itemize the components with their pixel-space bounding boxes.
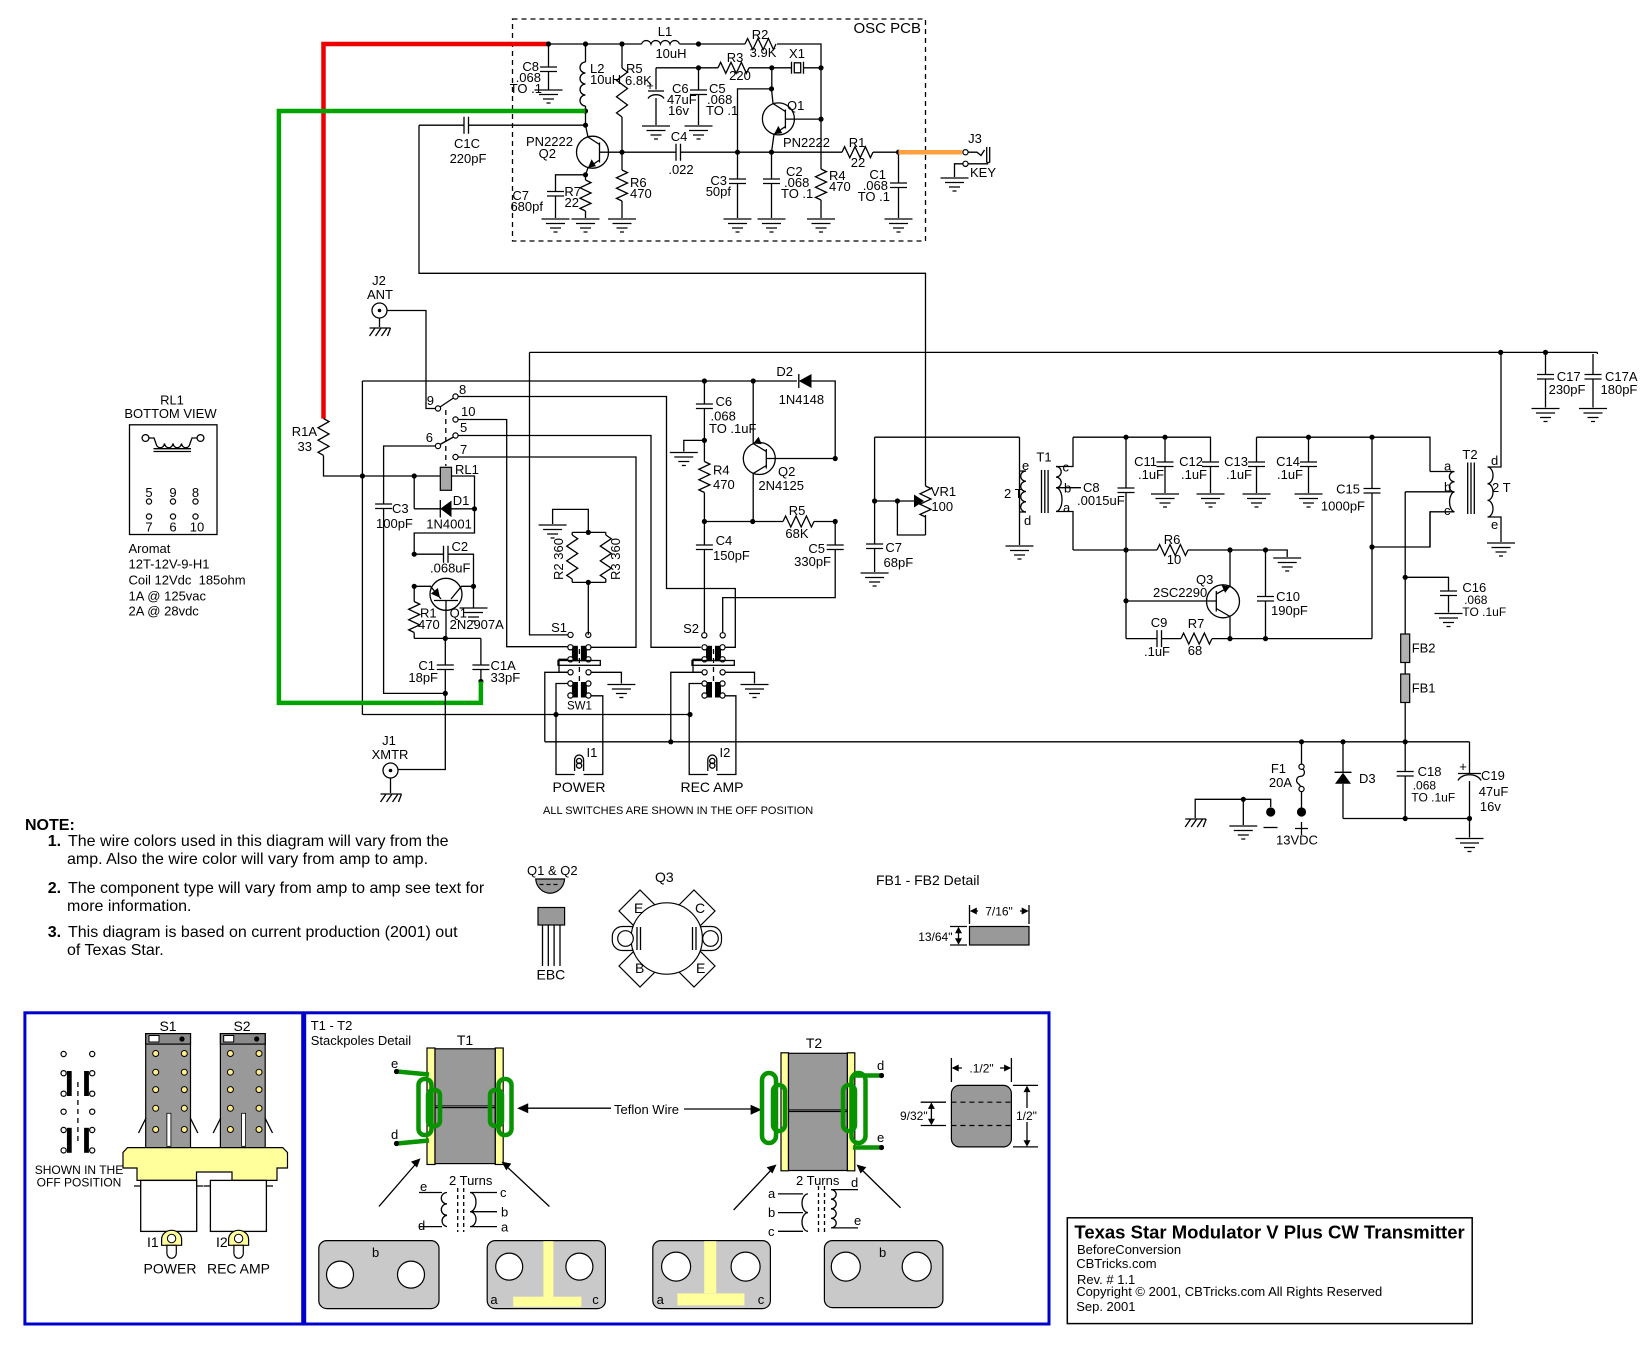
capacitor C17 230pF xyxy=(1545,352,1547,374)
svg-text:.1/2": .1/2" xyxy=(969,1062,993,1076)
wire rail1 xyxy=(362,714,690,716)
capacitor C19 47uF 16v xyxy=(1469,742,1471,773)
svg-text:190pF: 190pF xyxy=(1271,603,1308,618)
svg-text:R1A: R1A xyxy=(292,424,318,439)
svg-text:BOTTOM VIEW: BOTTOM VIEW xyxy=(124,406,217,421)
potentiometer VR1 100 xyxy=(875,437,1020,535)
svg-text:POWER: POWER xyxy=(553,779,606,795)
svg-text:R1: R1 xyxy=(849,135,866,150)
svg-text:150pF: 150pF xyxy=(713,548,750,563)
resistor R5 68K xyxy=(783,516,814,527)
capacitor C17A 180pF xyxy=(1593,352,1597,374)
resistor R1 22 osc xyxy=(842,147,873,158)
svg-text:T1 - T2: T1 - T2 xyxy=(311,1018,353,1033)
svg-text:J3: J3 xyxy=(968,131,982,146)
T1 card arrows xyxy=(379,1163,550,1207)
stackpole card 1 xyxy=(319,1241,439,1309)
wire red top feed xyxy=(324,44,549,419)
capacitor C8 xyxy=(548,44,550,67)
svg-text:8: 8 xyxy=(459,382,466,397)
svg-text:100: 100 xyxy=(931,499,953,514)
capacitor C2 .068 xyxy=(771,152,773,179)
relay blades xyxy=(440,398,454,445)
svg-text:a: a xyxy=(768,1186,776,1201)
svg-text:C3: C3 xyxy=(392,501,409,516)
svg-text:E: E xyxy=(696,960,705,976)
svg-text:I2: I2 xyxy=(720,745,731,760)
green lead e xyxy=(397,1072,429,1075)
svg-text:a: a xyxy=(501,1220,509,1235)
svg-text:J2: J2 xyxy=(372,273,386,288)
svg-text:2 Turns: 2 Turns xyxy=(796,1173,840,1188)
svg-text:1/2": 1/2" xyxy=(1016,1109,1037,1123)
wire Q1 collector to R3 node xyxy=(738,68,772,152)
svg-text:D3: D3 xyxy=(1359,771,1376,786)
green winding T1 right xyxy=(499,1079,512,1135)
resistor R4 470 osc xyxy=(820,119,822,218)
OSC PCB dashed border xyxy=(513,19,926,241)
wire R1 bottom row xyxy=(414,637,481,639)
svg-text:a: a xyxy=(1444,459,1452,474)
svg-text:C6: C6 xyxy=(716,394,733,409)
svg-text:68pF: 68pF xyxy=(884,555,914,570)
wire minus to grounds xyxy=(1195,799,1271,818)
svg-text:e: e xyxy=(877,1130,884,1145)
svg-text:c: c xyxy=(768,1224,775,1239)
svg-text:FB1 - FB2 Detail: FB1 - FB2 Detail xyxy=(876,872,979,888)
svg-text:c: c xyxy=(1063,460,1070,475)
wire S2 mid left to rail2 xyxy=(671,672,702,742)
svg-text:5: 5 xyxy=(460,420,467,435)
switch S1 pole 1 xyxy=(568,645,591,662)
svg-text:2A @ 28vdc: 2A @ 28vdc xyxy=(129,604,200,619)
svg-text:.1uF: .1uF xyxy=(1144,644,1170,659)
capacitor C1 .068 osc xyxy=(898,152,900,183)
svg-text:33pF: 33pF xyxy=(491,670,521,685)
transistor Q2 2N4125 xyxy=(743,443,775,475)
svg-text:e: e xyxy=(1022,458,1029,473)
svg-text:R6: R6 xyxy=(1164,532,1181,547)
svg-text:F1: F1 xyxy=(1271,761,1286,776)
svg-text:J1: J1 xyxy=(382,733,396,748)
fuse F1 20A xyxy=(1301,742,1303,765)
svg-text:Sep. 2001: Sep. 2001 xyxy=(1076,1299,1135,1314)
svg-text:2N2907A: 2N2907A xyxy=(450,617,505,632)
svg-text:T1: T1 xyxy=(1036,450,1051,465)
svg-text:8: 8 xyxy=(192,485,199,500)
svg-text:C15: C15 xyxy=(1336,482,1360,497)
svg-text:b: b xyxy=(501,1205,508,1220)
capacitor C3 50pf xyxy=(737,152,739,179)
svg-text:Q2: Q2 xyxy=(539,146,556,161)
green winding T2 right xyxy=(852,1073,866,1143)
svg-text:d: d xyxy=(1024,513,1031,528)
svg-text:This diagram is based on curre: This diagram is based on current product… xyxy=(68,924,458,941)
wire contact 7 path xyxy=(458,457,636,647)
T2 card arrows xyxy=(734,1168,901,1210)
ground C6 stub xyxy=(684,440,705,451)
wire top distribution line xyxy=(530,352,1598,635)
resistor R7 68 xyxy=(1162,638,1182,640)
svg-text:C7: C7 xyxy=(885,540,902,555)
stackpole card 2 xyxy=(487,1241,605,1309)
svg-text:68K: 68K xyxy=(785,526,808,541)
wire C8 bottom to base xyxy=(1125,550,1127,639)
svg-text:TO .1uF: TO .1uF xyxy=(709,421,757,436)
svg-text:a: a xyxy=(657,1292,665,1307)
capacitor C3 100pF xyxy=(375,504,392,509)
svg-text:REC AMP: REC AMP xyxy=(680,779,743,795)
svg-text:+: + xyxy=(646,78,654,93)
svg-text:c: c xyxy=(500,1185,507,1200)
svg-text:C9: C9 xyxy=(1151,615,1168,630)
svg-text:.022: .022 xyxy=(668,162,693,177)
svg-text:T2: T2 xyxy=(806,1035,823,1051)
wire feedback left xyxy=(419,125,926,486)
svg-text:R2: R2 xyxy=(752,27,769,42)
diode D3 xyxy=(1335,742,1352,773)
svg-text:c: c xyxy=(592,1292,599,1307)
svg-text:d: d xyxy=(1491,453,1498,468)
svg-text:e: e xyxy=(420,1179,427,1194)
resistor R3 360 xyxy=(605,532,607,582)
wire FB1 to rail2 xyxy=(1404,703,1406,742)
svg-text:.1uF: .1uF xyxy=(1277,467,1303,482)
ferrite bead FB1 xyxy=(1404,663,1406,675)
svg-text:D2: D2 xyxy=(776,364,793,379)
svg-text:9/32": 9/32" xyxy=(900,1109,928,1123)
capacitor C15 1000pF xyxy=(1371,437,1373,488)
wire contact 8 path xyxy=(458,397,735,648)
svg-text:330pF: 330pF xyxy=(794,554,831,569)
svg-text:C1C: C1C xyxy=(454,136,480,151)
green lead T2 d xyxy=(853,1073,880,1078)
capacitor C4 .022 xyxy=(622,151,676,153)
resistor R1A 33 xyxy=(324,456,441,477)
svg-text:50pf: 50pf xyxy=(706,184,732,199)
svg-text:c: c xyxy=(758,1292,765,1307)
svg-text:7: 7 xyxy=(460,442,467,457)
svg-text:KEY: KEY xyxy=(970,165,996,180)
svg-text:Aromat: Aromat xyxy=(129,541,171,556)
dashed S1 link xyxy=(578,649,580,682)
svg-text:T2: T2 xyxy=(1462,447,1477,462)
capacitor C6 47uF xyxy=(655,68,657,125)
svg-text:S2: S2 xyxy=(233,1018,250,1034)
svg-text:C19: C19 xyxy=(1481,768,1505,783)
crystal X1 xyxy=(792,62,804,74)
switch schematic symbol left xyxy=(61,1051,66,1056)
wire C1 bottom to J1 xyxy=(443,691,448,696)
svg-text:OFF POSITION: OFF POSITION xyxy=(37,1176,122,1190)
svg-text:Stackpoles Detail: Stackpoles Detail xyxy=(311,1033,412,1048)
wire S2 mid right to ground xyxy=(725,672,754,683)
svg-text:C10: C10 xyxy=(1276,589,1300,604)
relay RL1 coil xyxy=(440,467,451,490)
svg-text:1N4001: 1N4001 xyxy=(426,517,472,532)
svg-text:POWER: POWER xyxy=(144,1261,197,1277)
svg-text:470: 470 xyxy=(418,617,440,632)
svg-text:TO .1uF: TO .1uF xyxy=(1462,605,1506,619)
capacitor C7 68pF mid xyxy=(874,501,876,544)
svg-text:7/16": 7/16" xyxy=(985,905,1013,919)
svg-text:CBTricks.com: CBTricks.com xyxy=(1076,1256,1156,1271)
lamp I2 box xyxy=(689,684,736,775)
svg-text:2 T: 2 T xyxy=(1004,486,1023,501)
svg-text:2N4125: 2N4125 xyxy=(758,478,804,493)
svg-text:d: d xyxy=(851,1175,858,1190)
svg-text:1N4148: 1N4148 xyxy=(779,392,825,407)
dashed S2 link xyxy=(713,649,715,682)
svg-text:Texas Star Modulator V Plus CW: Texas Star Modulator V Plus CW Transmitt… xyxy=(1074,1222,1464,1243)
inductor L1 xyxy=(642,41,680,44)
inductor L2 xyxy=(585,44,587,125)
svg-text:13/64": 13/64" xyxy=(918,930,952,944)
relay contacts: 9,8,10,6,5,7 xyxy=(435,406,440,411)
yellow mounting bracket xyxy=(123,1148,288,1181)
svg-text:12T-12V-9-H1: 12T-12V-9-H1 xyxy=(129,557,210,572)
svg-text:C: C xyxy=(695,900,705,916)
svg-text:220pF: 220pF xyxy=(450,151,487,166)
svg-text:16v: 16v xyxy=(1480,799,1501,814)
svg-text:2.: 2. xyxy=(48,880,61,897)
capacitor C18 .068 xyxy=(1404,742,1406,772)
switch S1 pole 2 xyxy=(568,681,591,698)
svg-text:more information.: more information. xyxy=(67,898,192,915)
capacitor C6 mid xyxy=(703,381,705,404)
svg-text:18pF: 18pF xyxy=(408,670,438,685)
svg-text:Q2: Q2 xyxy=(778,464,795,479)
dashed relay link xyxy=(445,410,447,466)
svg-text:47uF: 47uF xyxy=(1479,784,1509,799)
resistor R1 470 left xyxy=(413,586,415,638)
capacitor C16 .068 xyxy=(1404,492,1406,578)
svg-text:ALL SWITCHES ARE SHOWN IN THE: ALL SWITCHES ARE SHOWN IN THE OFF POSITI… xyxy=(543,805,813,817)
capacitor C7 680pf xyxy=(556,175,586,192)
wire cap rail segment 2 xyxy=(1257,437,1431,471)
capacitor C11 .1uF xyxy=(1164,437,1166,462)
svg-text:100pF: 100pF xyxy=(376,516,413,531)
svg-text:10uH: 10uH xyxy=(655,46,686,61)
svg-text:OSC PCB: OSC PCB xyxy=(853,20,921,37)
svg-text:SW1: SW1 xyxy=(567,701,592,713)
svg-text:Q1 & Q2: Q1 & Q2 xyxy=(527,863,578,878)
svg-text:b: b xyxy=(372,1245,379,1260)
lamp I1 box xyxy=(556,684,603,775)
transistor Q1 osc PN2222 xyxy=(762,103,794,135)
wire orange key line xyxy=(899,150,963,155)
svg-text:S1: S1 xyxy=(551,620,567,635)
svg-text:R3: R3 xyxy=(727,50,744,65)
wire R6 row xyxy=(1073,550,1287,557)
resistor R5 6.8K xyxy=(621,44,623,152)
resistor network R2/R3 360 xyxy=(553,509,606,635)
svg-text:TO .1: TO .1 xyxy=(781,186,813,201)
svg-text:3.: 3. xyxy=(48,924,61,941)
wire D1 to C2 node xyxy=(414,509,474,554)
svg-text:b: b xyxy=(1444,480,1451,495)
svg-text:d: d xyxy=(391,1127,398,1142)
capacitor C1 18pF xyxy=(444,638,446,665)
svg-text:16v: 16v xyxy=(668,103,689,118)
lamp I2 housing xyxy=(229,1230,249,1245)
switch S1 mid contacts xyxy=(568,670,573,675)
svg-text:10: 10 xyxy=(1167,552,1181,567)
wire R3 row xyxy=(656,68,821,119)
resistor R2 3.9K xyxy=(745,39,776,50)
svg-text:RL1: RL1 xyxy=(455,462,479,477)
green winding T2 left xyxy=(762,1073,776,1143)
svg-text:REC AMP: REC AMP xyxy=(207,1261,270,1277)
svg-text:R5: R5 xyxy=(789,503,806,518)
capacitor C9 .1uF xyxy=(1126,638,1157,640)
svg-text:.0015uF: .0015uF xyxy=(1077,493,1125,508)
svg-text:68: 68 xyxy=(1188,643,1202,658)
svg-text:Copyright © 2001, CBTricks.com: Copyright © 2001, CBTricks.com All Right… xyxy=(1076,1284,1382,1299)
svg-text:L1: L1 xyxy=(658,24,672,39)
resistor R2 360 xyxy=(571,532,573,582)
svg-text:S1: S1 xyxy=(159,1018,176,1034)
svg-text:EBC: EBC xyxy=(537,967,566,983)
capacitor C14 .1uF xyxy=(1308,437,1310,462)
node top rail dots xyxy=(546,41,551,46)
svg-text:.1uF: .1uF xyxy=(1226,467,1252,482)
wire emitter row right xyxy=(1212,547,1372,639)
svg-text:TO .1: TO .1 xyxy=(706,103,738,118)
wire S1 mid left to rail2 xyxy=(545,672,568,742)
transistor Q1 2N2907A xyxy=(430,578,462,610)
svg-text:680pf: 680pf xyxy=(510,199,543,214)
svg-text:The component type will vary f: The component type will vary from amp to… xyxy=(68,880,485,897)
svg-text:1.: 1. xyxy=(48,833,61,850)
svg-text:a: a xyxy=(490,1292,498,1307)
svg-text:C18: C18 xyxy=(1418,764,1442,779)
relay coil drawing xyxy=(142,435,149,442)
ferrite bead FB2 xyxy=(1404,577,1406,634)
wire cap rail segment 1 xyxy=(1073,437,1211,462)
svg-text:e: e xyxy=(1491,517,1498,532)
svg-text:2SC2290: 2SC2290 xyxy=(1153,585,1207,600)
wire green xyxy=(279,111,586,703)
connector J3 KEY xyxy=(963,150,968,155)
resistor R6 10 xyxy=(1157,545,1188,556)
svg-text:1000pF: 1000pF xyxy=(1321,499,1365,514)
wire bottom rail xyxy=(1343,818,1470,820)
resistor R7 22 osc xyxy=(583,172,588,177)
wire S1 mid right to ground xyxy=(591,672,621,683)
stackpole card 4 xyxy=(824,1241,943,1308)
svg-text:33: 33 xyxy=(298,439,312,454)
svg-text:9: 9 xyxy=(169,485,176,500)
svg-text:b: b xyxy=(879,1245,886,1260)
svg-text:I1: I1 xyxy=(587,745,598,760)
green lead T2 e xyxy=(853,1145,880,1150)
switch S2 pole 2 xyxy=(702,681,725,698)
svg-text:3.9K: 3.9K xyxy=(750,45,777,60)
svg-text:TO .1: TO .1 xyxy=(858,189,890,204)
svg-text:22: 22 xyxy=(565,195,579,210)
svg-text:C4: C4 xyxy=(716,533,733,548)
svg-text:B: B xyxy=(635,960,644,976)
svg-text:10: 10 xyxy=(190,520,204,535)
wire R5 row mid xyxy=(704,521,835,523)
ground Q1 right xyxy=(473,586,475,607)
wire contact 10 path xyxy=(458,420,568,647)
wire emitter row xyxy=(738,151,899,153)
svg-text:S2: S2 xyxy=(683,621,699,636)
wire rail2 xyxy=(545,741,1470,743)
svg-text:.068uF: .068uF xyxy=(430,561,471,576)
diode D1 1N4001 xyxy=(414,500,474,518)
svg-text:20A: 20A xyxy=(1269,775,1292,790)
svg-text:10uH: 10uH xyxy=(590,72,621,87)
svg-text:+: + xyxy=(1459,759,1467,774)
capacitor C2 .068uF left xyxy=(414,553,443,555)
transistor Q2 osc PN2222 xyxy=(577,136,609,168)
svg-text:ANT: ANT xyxy=(367,287,393,302)
teflon wire arrow xyxy=(527,1107,757,1110)
svg-text:R4: R4 xyxy=(713,463,730,478)
diode D2 1N4148 xyxy=(798,374,800,388)
svg-text:Q1: Q1 xyxy=(787,98,804,113)
switch S2 mid contacts xyxy=(702,670,707,675)
svg-text:I1: I1 xyxy=(147,1234,159,1250)
wire D2 row xyxy=(362,381,835,457)
svg-text:22: 22 xyxy=(851,155,865,170)
toggle body I1 xyxy=(141,1180,197,1231)
wire c tap to C15 node xyxy=(1372,512,1430,547)
svg-text:7: 7 xyxy=(145,520,152,535)
svg-text:E: E xyxy=(634,900,643,916)
toggle body I2 xyxy=(210,1180,266,1231)
svg-text:TO .1: TO .1 xyxy=(510,81,542,96)
svg-text:b: b xyxy=(768,1205,775,1220)
capacitor C12 .1uF xyxy=(1202,462,1219,467)
capacitor C1C 220pF xyxy=(419,124,464,126)
transistor Q3 2SC2290 xyxy=(1207,585,1240,618)
wire D2 row feed vertical xyxy=(361,381,363,715)
svg-text:6: 6 xyxy=(169,520,176,535)
svg-text:The wire colors used in this d: The wire colors used in this diagram wil… xyxy=(68,833,449,850)
svg-text:10: 10 xyxy=(461,404,475,419)
svg-text:470: 470 xyxy=(829,179,851,194)
svg-text:5: 5 xyxy=(145,485,152,500)
svg-text:I2: I2 xyxy=(216,1234,228,1250)
green winding T1 left xyxy=(419,1079,432,1135)
wire RL1 coil links xyxy=(414,476,474,509)
svg-text:c: c xyxy=(1444,503,1451,518)
stackpole card 3 xyxy=(653,1241,771,1309)
svg-text:PN2222: PN2222 xyxy=(783,135,830,150)
svg-text:220: 220 xyxy=(729,68,751,83)
lamp I1 housing xyxy=(162,1230,182,1245)
capacitor C10 190pF xyxy=(1265,550,1267,597)
svg-text:D1: D1 xyxy=(453,493,470,508)
svg-text:2 T: 2 T xyxy=(1492,480,1511,495)
svg-text:Q3: Q3 xyxy=(655,869,674,885)
node R1A bottom dots xyxy=(360,473,365,478)
svg-text:2 Turns: 2 Turns xyxy=(449,1173,493,1188)
svg-text:a: a xyxy=(1063,500,1071,515)
svg-text:NOTE:: NOTE: xyxy=(25,817,75,834)
svg-text:d: d xyxy=(418,1218,425,1233)
svg-text:13VDC: 13VDC xyxy=(1276,833,1318,848)
svg-text:6: 6 xyxy=(426,430,433,445)
svg-text:amp. Also the wire color will: amp. Also the wire color will vary from … xyxy=(67,851,428,868)
ferrite core dimension detail xyxy=(951,1085,1011,1147)
capacitor C4 150pF xyxy=(703,522,705,546)
svg-text:.1uF: .1uF xyxy=(1181,467,1207,482)
